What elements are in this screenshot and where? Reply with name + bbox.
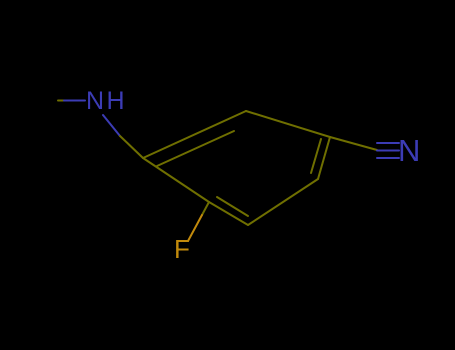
fluorine F label [174,234,190,265]
C2 to F bond (F half, orange) [188,215,202,241]
ring edge C1-C2 [143,158,209,202]
N to ring C1 bond (blue half) [103,115,120,136]
ring edge C4-C5 inner double line [311,139,321,173]
nitrile triple bond middle line [377,150,399,152]
bond ring C5 to nitrile carbon [330,137,377,150]
methyl C-N bond (carbon half) [58,100,64,102]
C2 to F bond (carbon half) [202,202,209,215]
nitrile triple bond bottom line [377,157,399,159]
ring edge C3-C4 [248,179,318,225]
amine NH label [86,87,127,116]
nitrile triple bond top line [377,142,399,144]
ring edge C2-C3 inner double line [217,197,248,216]
nitrile N label [398,133,420,169]
ring edge C4-C5 [318,137,330,179]
ring edge C6-C1 [143,111,246,158]
ring edge C6-C1 inner double line [157,131,234,166]
N to ring C1 bond (carbon half) [120,136,143,158]
methyl C-N bond (N half) [64,100,85,102]
ring edge C2-C3 [209,202,248,225]
ring edge C5-C6 [246,111,330,137]
